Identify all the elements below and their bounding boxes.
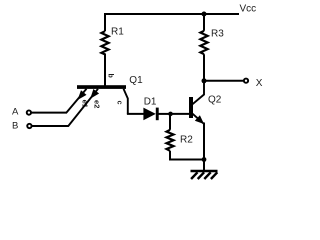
wire diode to junction xyxy=(158,113,172,115)
emitter 1 arrowhead xyxy=(78,90,87,100)
svg-text:B: B xyxy=(12,121,18,132)
terminal A open circle xyxy=(27,110,31,114)
diode D1 xyxy=(143,97,158,121)
wire junction to Q2 base xyxy=(171,113,190,115)
transistor Q2 xyxy=(189,81,222,171)
emitter arrowhead xyxy=(195,115,204,124)
collector lead xyxy=(124,89,128,114)
wire R2 bottom to emitter rail xyxy=(169,159,204,161)
emitter 2 line xyxy=(68,89,98,126)
emitter lead xyxy=(193,114,204,124)
terminal B open circle xyxy=(27,124,31,128)
resistor R3 xyxy=(200,14,224,81)
svg-text:Vcc: Vcc xyxy=(240,4,257,15)
wire input B xyxy=(32,125,69,127)
wire Q1 collector to diode xyxy=(127,113,145,115)
ground xyxy=(191,171,218,179)
wire to X terminal xyxy=(204,80,243,82)
node X junction dot xyxy=(202,78,207,83)
transistor Q1 multi-emitter xyxy=(66,54,143,127)
svg-text:Q2: Q2 xyxy=(208,95,222,106)
svg-text:b: b xyxy=(107,74,114,78)
junction dot emitter/ground xyxy=(202,157,207,162)
wire input A xyxy=(32,112,68,114)
svg-text:A: A xyxy=(12,107,19,118)
emitter rail to ground xyxy=(203,123,205,172)
svg-text:R1: R1 xyxy=(111,27,124,38)
svg-text:X: X xyxy=(256,78,263,89)
junction dot Vcc/R3 xyxy=(202,12,207,17)
svg-text:D1: D1 xyxy=(144,97,157,108)
svg-text:Q1: Q1 xyxy=(129,75,143,86)
junction dot D1/R2/Q2 xyxy=(168,112,173,117)
wire Vcc rail xyxy=(104,13,239,15)
base bar xyxy=(189,97,193,118)
svg-text:R2: R2 xyxy=(180,135,193,146)
svg-text:c: c xyxy=(116,101,123,105)
base bar xyxy=(77,85,126,89)
resistor R2 xyxy=(167,114,194,160)
resistor R1 xyxy=(101,13,124,85)
emitter 1 line xyxy=(66,89,86,113)
svg-text:e2: e2 xyxy=(92,100,101,108)
base lead wire xyxy=(104,54,106,86)
emitter 2 arrowhead xyxy=(90,89,99,99)
terminal X open circle xyxy=(244,79,248,83)
collector lead xyxy=(193,81,205,104)
svg-text:R3: R3 xyxy=(211,29,224,40)
